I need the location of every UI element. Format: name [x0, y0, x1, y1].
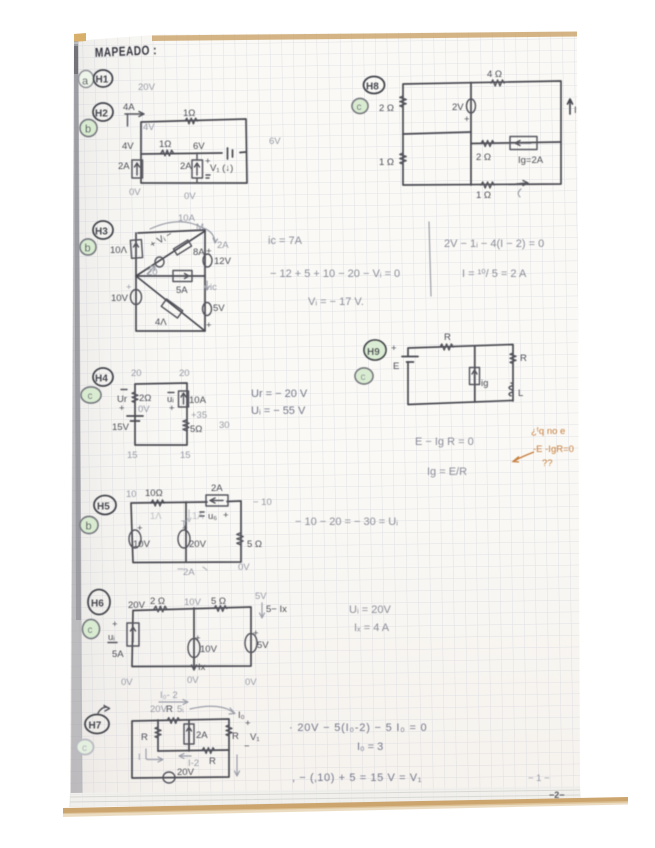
resistor 2ohm (left top)	[379, 96, 406, 114]
svg-text:ig: ig	[481, 378, 488, 389]
pencil note 20V R 5I	[150, 704, 184, 715]
wire: H7 inner left branch	[157, 720, 159, 751]
svg-text:5V: 5V	[213, 303, 225, 314]
svg-text:b: b	[85, 243, 91, 255]
svg-text:L: L	[518, 388, 523, 399]
equation Ui = 20V	[349, 604, 391, 616]
svg-text:c: c	[357, 102, 362, 113]
equation Vi result	[308, 296, 364, 308]
svg-text:6V: 6V	[269, 136, 281, 147]
current source 2A (H5 top)	[206, 483, 228, 506]
wire: H9 middle branch	[474, 347, 476, 402]
svg-text:, − (‚10) + 5 = 15 V = V: , − (‚10) + 5 = 15 V = V₁	[292, 772, 422, 784]
svg-text:MAPEADO :: MAPEADO :	[95, 43, 158, 60]
svg-text:I₀- 2: I₀- 2	[160, 690, 178, 701]
resistor 1ohm (top)	[183, 108, 197, 124]
exercise tag H4	[93, 368, 113, 386]
pencil node labels 15	[127, 450, 191, 461]
svg-text:0V: 0V	[184, 191, 196, 202]
svg-text:b: b	[86, 521, 92, 533]
svg-text:R: R	[209, 756, 216, 767]
svg-text:+: +	[391, 343, 397, 354]
title MAPEADO	[95, 43, 158, 60]
equation H5 result	[295, 516, 398, 528]
pencil node label 10V (H6 top)	[184, 597, 202, 608]
svg-text:20V: 20V	[177, 767, 195, 778]
svg-text:2 Ω: 2 Ω	[150, 596, 165, 607]
resistor 5ohm (H6 top)	[211, 596, 227, 611]
wire: H3 diagonal branch (Vi)	[136, 231, 205, 276]
equation I=10/5=2A	[462, 268, 527, 280]
current arrow Ix	[192, 658, 206, 673]
voltage source 10V (H6)	[188, 633, 218, 658]
svg-text:10V: 10V	[200, 644, 218, 655]
wire: H3 outer loop	[136, 230, 205, 331]
exercise tag H6	[88, 590, 110, 615]
wire: H7 inner bottom	[158, 750, 229, 751]
pencil node label 10	[126, 489, 137, 500]
svg-text:H8: H8	[366, 82, 379, 93]
pencil note Io-2 with arrow	[159, 690, 188, 705]
voltage label Ur	[117, 390, 127, 415]
svg-text:Ig=2A: Ig=2A	[518, 155, 544, 166]
label c (circled, green) H8	[352, 99, 368, 114]
svg-text:ic = 7A: ic = 7A	[268, 235, 303, 247]
svg-text:Iₓ = 4 A: Iₓ = 4 A	[354, 622, 390, 634]
pencil curve to Io	[190, 706, 245, 721]
svg-text:− 12 + 5 + 10 − 20 − Vᵢ = 0: − 12 + 5 + 10 − 20 − Vᵢ = 0	[270, 268, 400, 280]
svg-text:I: I	[574, 105, 577, 116]
pencil note 20V (H1)	[138, 82, 156, 93]
wire: H3 diagonal branch (4A)	[136, 276, 205, 331]
svg-text:+: +	[169, 403, 175, 414]
equation E - IgR = 0	[415, 436, 474, 448]
svg-text:4V: 4V	[143, 122, 155, 133]
svg-text:b: b	[85, 124, 91, 136]
svg-text:V₁: V₁	[250, 732, 260, 743]
svg-text:H1: H1	[96, 75, 109, 86]
resistor 2ohm (H6 top)	[150, 596, 167, 612]
equation Ix = 4A	[354, 622, 390, 634]
wire: H8 middle horizontal branch	[471, 142, 561, 144]
pencil note 5V (H6)	[255, 591, 267, 602]
voltage label ub	[200, 510, 229, 522]
svg-text:Uᵢ = − 55 V: Uᵢ = − 55 V	[251, 405, 306, 417]
voltage source 12V	[203, 246, 232, 267]
svg-text:H9: H9	[367, 347, 380, 358]
wire: H9 outer loop	[408, 345, 513, 405]
pencil note 6V	[269, 136, 281, 147]
equation Ui result	[251, 405, 306, 417]
svg-text:-E -IgR=0: -E -IgR=0	[533, 444, 574, 455]
svg-text:2V: 2V	[452, 102, 464, 113]
svg-text:2A: 2A	[118, 161, 130, 172]
wire: H7 outer loop	[132, 719, 229, 778]
svg-text:T: T	[181, 519, 187, 530]
svg-text:uᵢ: uᵢ	[108, 632, 115, 643]
svg-text:− 10 − 20 = − 30 = Uᵢ: − 10 − 20 = − 30 = Uᵢ	[295, 516, 398, 528]
svg-text:5− Ix: 5− Ix	[266, 604, 287, 615]
pencil note 0V	[138, 404, 150, 415]
wire: H2 middle branch	[141, 152, 246, 154]
svg-text:6V: 6V	[193, 141, 205, 152]
svg-text:E: E	[393, 361, 399, 372]
svg-text:0V: 0V	[138, 404, 150, 415]
wire: H6 outer loop	[132, 607, 251, 667]
label c (circled, green) H9	[355, 368, 373, 384]
svg-text:H3: H3	[95, 227, 108, 238]
svg-text:20: 20	[131, 368, 142, 379]
pencil note 2A below	[178, 567, 207, 578]
pencil pointer and 20	[147, 266, 158, 278]
pencil node label 0V (middle)	[184, 191, 196, 202]
wire: H2 input stub	[127, 114, 129, 126]
exercise tag H1	[94, 70, 113, 87]
current source 2A (left)	[118, 160, 143, 178]
svg-text:1 Ω: 1 Ω	[379, 157, 394, 168]
svg-text:R: R	[141, 732, 148, 743]
current source Ig=2A	[510, 137, 544, 167]
wire: H5 middle branch	[185, 502, 187, 561]
label a (circled)	[79, 71, 94, 88]
wire: H8 inner horizontal (left)	[403, 132, 471, 134]
resistor 1ohm (left bottom)	[379, 153, 406, 168]
svg-text:5 Ω: 5 Ω	[211, 596, 226, 607]
svg-text:2A: 2A	[183, 567, 195, 578]
equation Io = 3	[357, 741, 383, 753]
svg-text:2Ω: 2Ω	[139, 393, 151, 404]
label c (circled, green) H4	[81, 387, 101, 403]
svg-text:+: +	[195, 633, 201, 644]
equation 2V-1i-4(I-2)=0	[444, 238, 544, 250]
pencil note 2A	[217, 240, 229, 251]
svg-text:20V: 20V	[138, 82, 156, 93]
svg-text:5 Ω: 5 Ω	[247, 539, 262, 550]
resistor 2ohm (H4 left)	[132, 392, 151, 404]
current source 5A (H6)	[112, 623, 139, 660]
voltage source 20V (H5)	[178, 519, 207, 550]
svg-text:10V: 10V	[133, 539, 151, 550]
inductor L (H9 right)	[509, 383, 523, 399]
node label 4V	[122, 141, 134, 152]
pencil node label 0V (left)	[129, 187, 141, 198]
pencil current I bracket	[138, 749, 163, 763]
resistor R (H7 top)	[167, 718, 180, 724]
pencil node label 4V (top)	[143, 122, 155, 133]
svg-text:10: 10	[126, 489, 137, 500]
svg-text:30: 30	[219, 420, 230, 431]
equation KVL H3	[270, 268, 400, 280]
svg-text:+: +	[206, 320, 212, 331]
label c (circled, green faded) H7	[77, 740, 94, 755]
current source 2A (H7)	[184, 724, 208, 744]
current source 5A	[173, 271, 192, 297]
node label 20V (H6)	[128, 600, 146, 611]
wire: H2 outer loop	[141, 119, 247, 183]
current source Ig (H9)	[470, 368, 489, 390]
equation H7 result	[292, 772, 422, 784]
svg-text:10V: 10V	[111, 293, 129, 304]
resistor 1ohm (bottom)	[476, 182, 494, 201]
svg-text:2A: 2A	[180, 161, 192, 172]
svg-text:H4: H4	[95, 374, 108, 385]
svg-text:15: 15	[127, 450, 138, 461]
wire: H2 middle source branch	[196, 153, 198, 183]
pencil note +35	[191, 410, 207, 421]
wire: H7 middle branch	[188, 720, 190, 751]
svg-text:2A: 2A	[217, 240, 229, 251]
pencil arrow 1A (middle)	[187, 510, 204, 522]
battery 15V	[112, 416, 143, 433]
svg-text:+: +	[126, 282, 132, 293]
exercise tag H2	[93, 103, 113, 121]
svg-text:10A: 10A	[189, 395, 207, 406]
svg-text:− 10: − 10	[253, 497, 272, 508]
current source 2A V1 (middle)	[180, 156, 233, 178]
svg-text:¿ᵗq no e: ¿ᵗq no e	[531, 426, 565, 437]
resistor on diagonal (Vi)	[148, 229, 205, 258]
svg-text:20: 20	[179, 368, 190, 379]
voltage label ui (H6)	[108, 619, 118, 643]
svg-text:H2: H2	[95, 109, 108, 120]
orange annotation ?? with arrow	[513, 452, 553, 469]
svg-text:2A: 2A	[211, 483, 223, 494]
svg-text:− 1 −: − 1 −	[528, 773, 550, 784]
voltage source 2V	[452, 99, 476, 125]
svg-text:+: +	[223, 510, 229, 521]
svg-text:+: +	[245, 718, 251, 729]
pencil arc 10A over H3	[150, 213, 218, 243]
battery E	[391, 343, 418, 372]
equation H7 KVL	[289, 722, 427, 734]
svg-text:20V: 20V	[189, 539, 207, 550]
voltage source 20V (H7 bottom)	[163, 767, 195, 783]
equation Ig = E/R	[427, 466, 467, 478]
svg-text:5ᵢ: 5ᵢ	[177, 704, 184, 715]
pencil node label 0V (H5)	[238, 562, 250, 573]
svg-text:5V: 5V	[255, 591, 267, 602]
pencil node labels 0V (H6)	[121, 675, 257, 688]
voltage source 10V	[111, 282, 142, 305]
pencil note 1A (left)	[150, 511, 162, 522]
H2: current arrow	[125, 112, 144, 117]
svg-text:10A: 10A	[178, 213, 196, 224]
wire: H6 middle branch	[193, 608, 195, 666]
label b (circled, green)	[80, 120, 97, 137]
svg-text:20V: 20V	[128, 600, 146, 611]
svg-text:4 Ω: 4 Ω	[487, 69, 502, 80]
resistor 1ohm (middle)	[159, 139, 173, 156]
svg-text:u₆: u₆	[208, 511, 217, 522]
exercise tag H3	[93, 221, 113, 239]
svg-text:I = ¹⁰/ 5 = 2 A: I = ¹⁰/ 5 = 2 A	[462, 268, 527, 280]
resistor 10ohm (H5 top)	[145, 488, 164, 506]
current arrow I (right)	[568, 99, 577, 116]
svg-text:Ix: Ix	[198, 662, 206, 673]
svg-text:??: ??	[542, 458, 553, 469]
node circle on diagonal	[155, 257, 164, 267]
pencil note -10	[253, 497, 272, 508]
exercise tag H5	[94, 496, 116, 515]
svg-text:+: +	[137, 523, 143, 534]
resistor R (H7 inner bottom)	[202, 748, 216, 767]
svg-text:+: +	[112, 619, 118, 630]
svg-text:Uᵢ = 20V: Uᵢ = 20V	[349, 604, 391, 616]
svg-text:5V: 5V	[257, 640, 269, 651]
resistor 4ohm (top)	[487, 69, 504, 86]
pencil node labels 20	[131, 368, 190, 379]
svg-text:c: c	[88, 391, 93, 402]
pencil note 30	[219, 420, 230, 431]
svg-text:15: 15	[180, 450, 191, 461]
svg-text:c: c	[88, 625, 93, 636]
equation ic = 7A	[268, 235, 303, 247]
exercise tag H9	[364, 340, 386, 360]
svg-text:+: +	[253, 628, 259, 639]
svg-text:M: M	[196, 222, 204, 233]
voltage source 5V (H6)	[245, 628, 269, 653]
svg-text:1Λ: 1Λ	[150, 511, 162, 522]
voltage source 10V (H5)	[129, 523, 151, 550]
svg-text:2A: 2A	[196, 730, 208, 741]
svg-text:1Ω: 1Ω	[183, 108, 195, 119]
wire: H5 outer loop	[131, 501, 241, 563]
current source 4A (diagonal)	[155, 299, 183, 328]
exercise tag H7	[85, 706, 110, 734]
wire: H3 middle horizontal branch	[136, 275, 205, 277]
svg-text:c: c	[82, 743, 87, 754]
svg-text:R: R	[520, 353, 527, 364]
svg-text:I₀ = 3: I₀ = 3	[357, 741, 383, 753]
svg-text:4V: 4V	[122, 141, 134, 152]
svg-text:0V: 0V	[129, 187, 141, 198]
pencil current ic arrow	[205, 281, 218, 293]
svg-text:a: a	[82, 76, 89, 88]
svg-text:1A: 1A	[192, 511, 204, 522]
wire: H4 outer loop	[135, 383, 187, 445]
exercise tag H8	[364, 77, 385, 94]
resistor R (H9 top)	[440, 332, 453, 350]
pencil down arrow (H7 right)	[235, 755, 240, 776]
svg-text:0V: 0V	[121, 677, 133, 688]
resistor 2ohm (middle)	[476, 141, 494, 164]
label b (circled, green) H5	[80, 517, 98, 534]
svg-text:0V: 0V	[238, 562, 250, 573]
svg-text:5Ω: 5Ω	[190, 424, 202, 435]
current source 10A (H4)	[179, 391, 207, 407]
svg-text:10V: 10V	[184, 597, 202, 608]
svg-text:12V: 12V	[214, 256, 232, 267]
svg-text:2V − 1ᵢ − 4(I − 2) = 0: 2V − 1ᵢ − 4(I − 2) = 0	[444, 238, 544, 250]
svg-text:−: −	[244, 741, 250, 752]
orange annotation line 2	[533, 444, 574, 455]
svg-text:2 Ω: 2 Ω	[476, 152, 491, 163]
svg-text:E − Ig R = 0: E − Ig R = 0	[415, 436, 474, 448]
resistor R (H9 right)	[510, 353, 527, 364]
voltage label ui	[167, 393, 175, 415]
svg-text:V₁ (↓): V₁ (↓)	[210, 163, 233, 174]
svg-text:Ur = − 20 V: Ur = − 20 V	[251, 388, 308, 400]
label b (circled, green) H3	[80, 239, 96, 255]
label 5-Ix with pencil arrow	[260, 603, 288, 618]
resistor 5ohm (H5 right)	[237, 533, 262, 550]
current arrow on bottom wire	[516, 181, 528, 198]
svg-text:−2−: −2−	[549, 790, 565, 800]
svg-text:I: I	[138, 752, 141, 763]
svg-text:R: R	[166, 704, 173, 715]
paper sheet	[63, 32, 628, 818]
node label 6V	[193, 141, 205, 152]
svg-text:I₀: I₀	[238, 710, 245, 721]
voltage source 5V	[203, 303, 226, 332]
svg-text:c: c	[361, 372, 366, 383]
svg-text:H6: H6	[91, 599, 104, 610]
svg-text:4A: 4A	[123, 102, 135, 113]
svg-text:5A: 5A	[112, 649, 124, 660]
resistor R (H7 right)	[226, 725, 239, 742]
svg-text:H5: H5	[97, 502, 110, 513]
svg-text:+: +	[206, 246, 212, 257]
svg-text:+35: +35	[191, 410, 207, 421]
label c (circled, green) H6	[83, 620, 100, 639]
equation Ur result	[251, 388, 308, 400]
svg-text:ic: ic	[210, 282, 217, 293]
svg-text:Ig = E/R: Ig = E/R	[427, 466, 467, 478]
svg-text:R: R	[232, 731, 239, 742]
svg-text:4Λ: 4Λ	[155, 317, 167, 328]
wire: H8 middle vertical branch	[470, 83, 472, 186]
svg-text:H7: H7	[89, 721, 102, 732]
pencil arrow I-2	[179, 754, 199, 770]
resistor 5ohm (H4 right)	[183, 420, 202, 435]
H2: current label 4A	[123, 102, 135, 113]
svg-text:+: +	[464, 114, 470, 125]
svg-text:5A: 5A	[176, 285, 188, 296]
svg-text:· 20V − 5(I₀-2) − 5 I₀ = 0: · 20V − 5(I₀-2) − 5 I₀ = 0	[289, 722, 427, 734]
svg-text:10Λ: 10Λ	[110, 245, 128, 256]
svg-text:Vᵢ = − 17 V.: Vᵢ = − 17 V.	[308, 296, 364, 308]
orange annotation line 1	[531, 426, 565, 437]
svg-text:1Ω: 1Ω	[159, 139, 171, 150]
svg-text:0V: 0V	[187, 675, 199, 686]
pencil divider line	[429, 222, 431, 296]
svg-text:20V: 20V	[150, 704, 168, 715]
page number -2-	[549, 790, 565, 800]
svg-text:10Ω: 10Ω	[145, 488, 163, 499]
battery (middle branch)	[228, 148, 233, 159]
svg-text:15V: 15V	[112, 422, 130, 433]
svg-text:0V: 0V	[245, 677, 257, 688]
svg-text:R: R	[444, 332, 451, 343]
svg-text:2 Ω: 2 Ω	[379, 103, 394, 114]
svg-text:+: +	[119, 403, 125, 414]
svg-text:1 Ω: 1 Ω	[476, 190, 491, 201]
wire: H8 outer loop	[403, 81, 561, 185]
resistor R (H7 left)	[141, 727, 161, 743]
voltage label V1 (H7)	[244, 718, 260, 752]
current source 10A (left)	[110, 240, 143, 259]
page number -1-	[528, 773, 550, 784]
